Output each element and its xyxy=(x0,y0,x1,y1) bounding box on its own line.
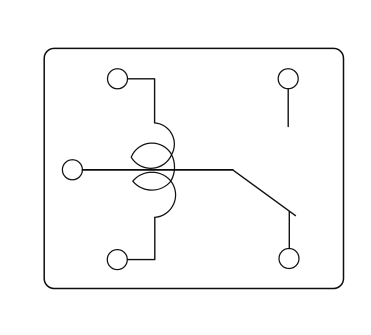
wire common xyxy=(82,169,232,171)
wire NO contact stub xyxy=(287,89,289,127)
wire pin1 to coil xyxy=(128,79,155,123)
pin 3 terminal (common) xyxy=(62,160,82,180)
pin 2 terminal (coil bottom) xyxy=(107,250,127,270)
pin 4 terminal (NO contact) xyxy=(278,69,298,89)
pin 5 terminal (NC contact) xyxy=(279,249,299,269)
wire coil to pin 2 xyxy=(127,217,155,259)
coil L1 xyxy=(131,123,175,217)
wire contact to pin 5 xyxy=(288,212,290,249)
relay body outline K1 xyxy=(44,48,343,288)
switch armature xyxy=(233,170,296,216)
pin 1 terminal (coil top) xyxy=(108,69,128,89)
